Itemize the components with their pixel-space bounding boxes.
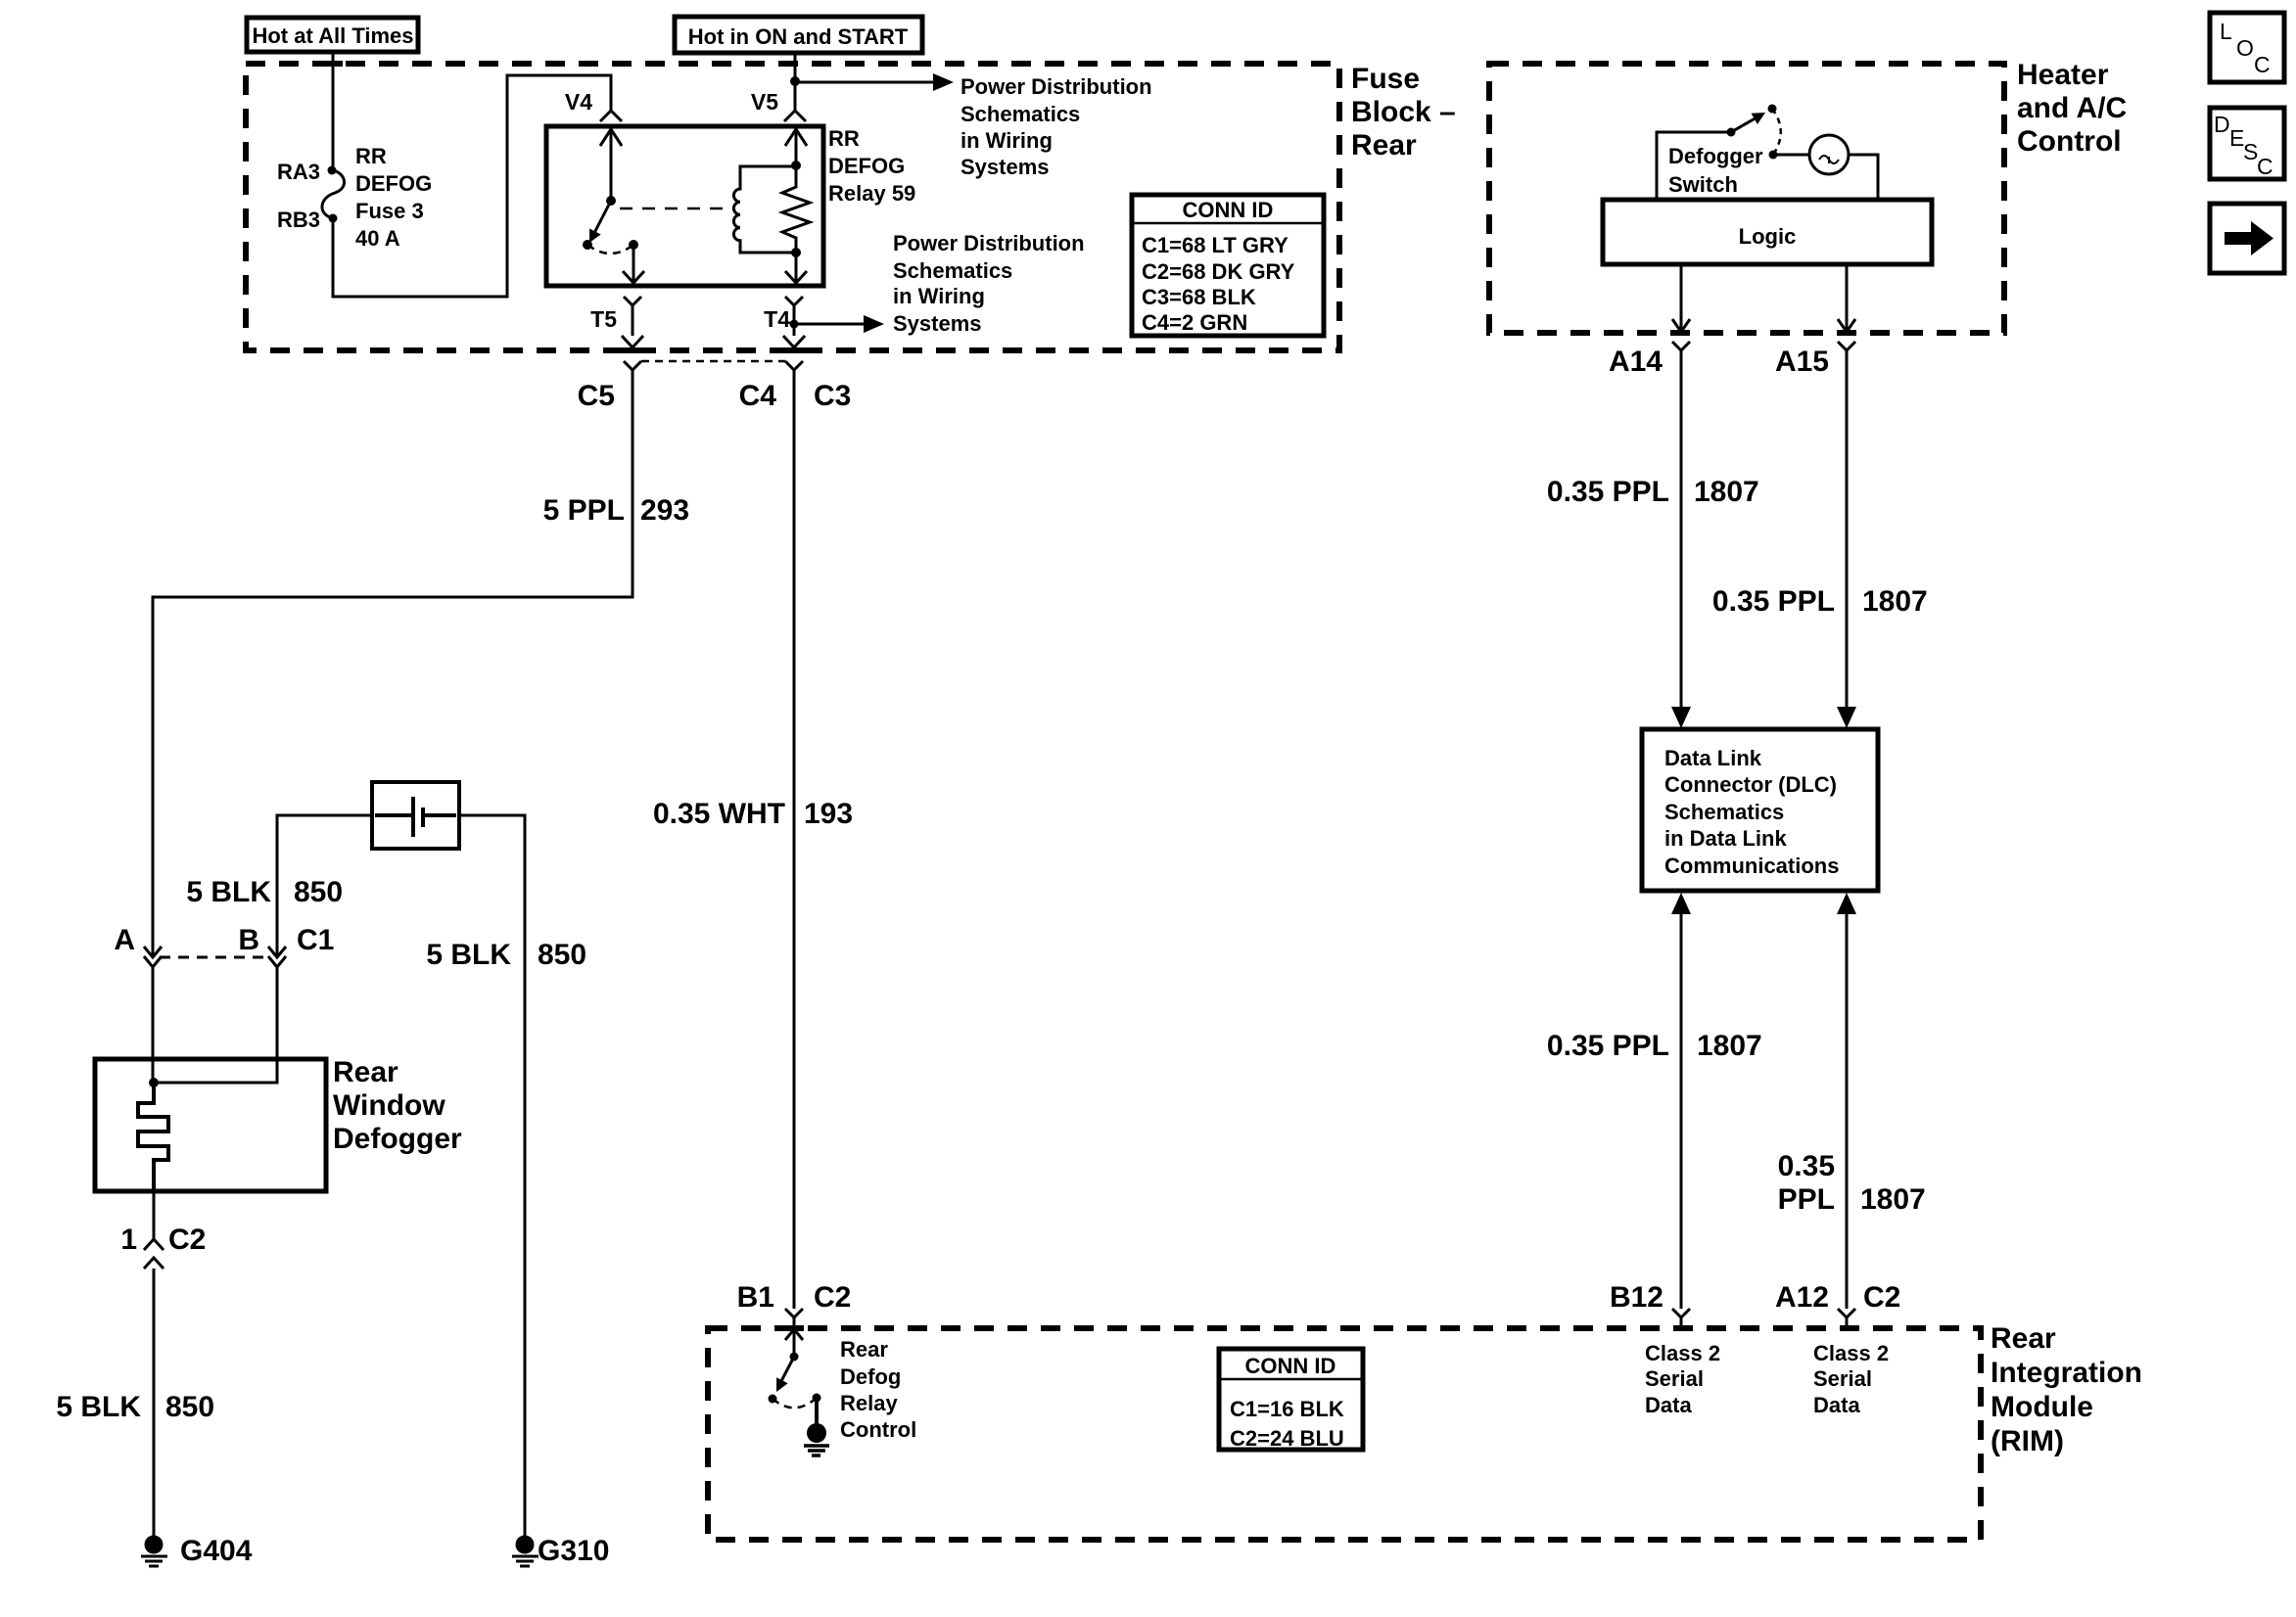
wire A into defogger: [152, 967, 155, 1083]
DESC reference box: [2210, 108, 2284, 179]
label Fuse Block - Rear: [1351, 63, 1456, 162]
svg-text:C5: C5: [578, 380, 615, 412]
svg-text:Defog: Defog: [840, 1364, 901, 1389]
svg-text:0.35 PPL: 0.35 PPL: [1712, 585, 1835, 618]
svg-text:C4=2 GRN: C4=2 GRN: [1142, 310, 1247, 335]
svg-text:Defogger: Defogger: [1668, 144, 1763, 168]
svg-text:5 BLK: 5 BLK: [186, 876, 271, 908]
svg-text:850: 850: [538, 939, 586, 971]
svg-text:Block –: Block –: [1351, 96, 1456, 128]
Rear Integration Module dashed box: [708, 1328, 1981, 1540]
svg-text:in Data Link: in Data Link: [1664, 826, 1787, 851]
defogger switch arm: [1731, 113, 1765, 132]
defogger switch feed wire: [1657, 132, 1731, 200]
svg-text:Hot in ON and START: Hot in ON and START: [688, 24, 909, 49]
svg-text:DEFOG: DEFOG: [828, 154, 905, 178]
label box "Hot in ON and START": [675, 17, 922, 53]
node T4 junction: [790, 320, 799, 329]
svg-text:C2: C2: [1863, 1281, 1900, 1314]
wire label 5 BLK 850 (left): [186, 876, 343, 908]
svg-text:Rear: Rear: [1991, 1322, 2056, 1355]
svg-text:L: L: [2220, 19, 2232, 44]
node V5 junction: [790, 76, 800, 86]
svg-text:C2: C2: [168, 1224, 206, 1256]
defogger switch dashed arc: [1772, 109, 1781, 155]
relay coil feed wire with up arrow: [785, 128, 807, 165]
svg-text:in Wiring: in Wiring: [893, 284, 985, 308]
svg-text:Schematics: Schematics: [1664, 800, 1784, 824]
svg-text:C2: C2: [814, 1281, 851, 1314]
Heater and A/C Control dashed box: [1489, 64, 2004, 333]
rim internal ground: [804, 1398, 829, 1455]
wire label 5 PPL 293: [543, 494, 689, 527]
svg-text:0.35 PPL: 0.35 PPL: [1547, 476, 1669, 508]
svg-text:Fuse 3: Fuse 3: [355, 199, 424, 223]
svg-text:Rear: Rear: [1351, 129, 1417, 162]
svg-text:Heater: Heater: [2017, 59, 2109, 91]
wire C5 to connector A: [153, 370, 633, 956]
svg-text:RB3: RB3: [277, 208, 320, 232]
dash patch at fuse border wire crossings: [323, 61, 804, 1331]
svg-text:40 A: 40 A: [355, 226, 400, 251]
rim switch input wire with up arrow: [785, 1329, 803, 1357]
relay 59 box: [546, 126, 823, 286]
connector V5: [751, 89, 806, 121]
svg-text:Data: Data: [1813, 1393, 1860, 1417]
defogger switch contact top: [1768, 105, 1777, 114]
svg-text:RR: RR: [355, 144, 387, 168]
svg-text:C1: C1: [297, 924, 334, 956]
svg-text:1807: 1807: [1862, 585, 1928, 618]
svg-text:V5: V5: [751, 89, 778, 115]
relay contact left: [583, 240, 592, 250]
svg-text:C3: C3: [814, 380, 851, 412]
svg-text:Schematics: Schematics: [961, 102, 1080, 126]
label Defogger Switch: [1668, 144, 1763, 197]
svg-text:Class 2: Class 2: [1645, 1341, 1720, 1365]
svg-text:Data: Data: [1645, 1393, 1692, 1417]
svg-text:Power Distribution: Power Distribution: [893, 231, 1085, 255]
connector B1 / C2: [737, 1281, 852, 1326]
svg-text:Serial: Serial: [1813, 1366, 1872, 1391]
label Heater and A/C Control: [2017, 59, 2127, 158]
svg-text:Integration: Integration: [1991, 1357, 2142, 1389]
label Rear Integration Module (RIM): [1991, 1322, 2142, 1457]
ground G404: [141, 1535, 253, 1567]
ground G310: [512, 1535, 609, 1567]
in-line connector 1 / C2: [120, 1224, 206, 1269]
wire label 0.35 WHT 193: [653, 798, 853, 830]
svg-text:Serial: Serial: [1645, 1366, 1704, 1391]
svg-text:1807: 1807: [1694, 476, 1759, 508]
svg-text:0.35: 0.35: [1778, 1150, 1835, 1182]
svg-text:Window: Window: [333, 1089, 445, 1122]
logic box: [1603, 200, 1932, 264]
label Rear Window Defogger: [333, 1056, 462, 1155]
connector A12 / C2: [1775, 1281, 1900, 1328]
LOC reference box: [2210, 13, 2284, 82]
svg-text:B: B: [238, 924, 259, 956]
svg-text:1807: 1807: [1860, 1183, 1926, 1216]
svg-text:CONN ID: CONN ID: [1245, 1354, 1336, 1378]
svg-text:850: 850: [294, 876, 343, 908]
svg-text:1807: 1807: [1697, 1030, 1762, 1062]
in-line connector A: [114, 924, 162, 967]
svg-text:Rear: Rear: [333, 1056, 398, 1088]
svg-text:Data Link: Data Link: [1664, 746, 1762, 770]
svg-text:Fuse: Fuse: [1351, 63, 1420, 95]
svg-text:Power Distribution: Power Distribution: [961, 74, 1152, 99]
svg-text:Systems: Systems: [893, 311, 982, 336]
in-line connector dashed line C5-C4: [641, 360, 785, 363]
wire lamp to logic: [1849, 155, 1878, 200]
rim switch contact dashed arc: [773, 1398, 817, 1408]
svg-text:Control: Control: [2017, 125, 2122, 158]
label Data Link Connector: [1664, 746, 1839, 878]
wire label 0.35 PPL 1807 (B12): [1547, 1030, 1762, 1062]
svg-text:(RIM): (RIM): [1991, 1425, 2064, 1457]
relay coil bottom node: [791, 248, 801, 257]
svg-text:V4: V4: [565, 89, 592, 115]
wire label 0.35 PPL 1807 (A15): [1712, 585, 1928, 618]
relay coil top node: [791, 161, 801, 170]
relay linkage dashed line: [620, 208, 730, 210]
svg-text:and A/C: and A/C: [2017, 92, 2127, 124]
svg-text:Hot at All Times: Hot at All Times: [252, 23, 413, 48]
svg-text:Module: Module: [1991, 1391, 2093, 1423]
text Power Distribution Schematics in Wiring (bottom): [893, 231, 1085, 336]
fuse F3 RR DEFOG 40A: [322, 166, 345, 223]
arrow to Power Distribution (bottom): [794, 315, 884, 333]
connector C5: [578, 361, 641, 412]
wire B up to capacitor: [277, 815, 372, 956]
svg-text:C: C: [2254, 52, 2271, 77]
svg-text:Logic: Logic: [1739, 224, 1797, 249]
CONN ID table (RIM): [1219, 1349, 1363, 1451]
svg-text:T4: T4: [764, 306, 790, 332]
fuse value label RR DEFOG Fuse 3 40 A: [355, 144, 432, 251]
svg-text:C: C: [2257, 154, 2273, 179]
wire A14 to DLC: [1671, 350, 1691, 728]
wire logic to A14: [1672, 264, 1690, 332]
svg-text:G310: G310: [538, 1535, 609, 1567]
wire to indicator lamp: [1773, 154, 1809, 157]
svg-text:CONN ID: CONN ID: [1183, 198, 1274, 222]
svg-text:A12: A12: [1775, 1281, 1829, 1314]
rim switch pivot: [790, 1353, 799, 1362]
relay coil return wire with down arrow: [785, 253, 807, 283]
wire B12 to DLC: [1671, 893, 1691, 1309]
connector T5: [590, 297, 643, 347]
relay output wire with down arrow: [623, 245, 644, 283]
wire C1 into defogger: [154, 967, 277, 1083]
in-line connector dashed line A-B: [160, 956, 270, 959]
svg-text:1: 1: [120, 1224, 137, 1256]
rim switch contact left: [769, 1395, 777, 1404]
rim switch contact right: [813, 1394, 821, 1403]
svg-text:C1=16 BLK: C1=16 BLK: [1230, 1397, 1344, 1421]
svg-text:B12: B12: [1610, 1281, 1663, 1314]
svg-text:A14: A14: [1609, 346, 1663, 378]
relay coil: [733, 166, 796, 253]
svg-text:Relay 59: Relay 59: [828, 181, 915, 206]
svg-text:Communications: Communications: [1664, 854, 1839, 878]
label box "Hot at All Times": [247, 18, 418, 52]
wire capacitor to G310: [459, 815, 525, 1536]
pin label RA3: [277, 160, 320, 184]
svg-text:Class 2: Class 2: [1813, 1341, 1889, 1365]
svg-text:G404: G404: [180, 1535, 253, 1567]
connector V4: [565, 89, 622, 121]
connector T4: [764, 297, 805, 347]
text Power Distribution Schematics in Wiring (top): [961, 74, 1152, 179]
svg-text:5 BLK: 5 BLK: [56, 1391, 141, 1423]
svg-text:D: D: [2214, 112, 2230, 137]
svg-text:PPL: PPL: [1778, 1183, 1835, 1216]
svg-text:in Wiring: in Wiring: [961, 128, 1053, 153]
wire label 0.35 PPL 1807 (A14): [1547, 476, 1759, 508]
svg-text:O: O: [2236, 35, 2254, 61]
wire defogger to connector C2: [153, 1191, 156, 1239]
svg-text:A15: A15: [1775, 346, 1829, 378]
svg-text:Rear: Rear: [840, 1337, 888, 1362]
svg-text:Defogger: Defogger: [333, 1123, 462, 1155]
relay resistor: [782, 165, 810, 253]
defogger switch pivot: [1727, 128, 1736, 137]
svg-text:850: 850: [165, 1391, 214, 1423]
relay switch common wire with up arrow: [600, 128, 622, 201]
CONN ID table (fuse block): [1132, 195, 1324, 336]
connector C4 / C3: [739, 361, 852, 412]
svg-text:B1: B1: [737, 1281, 774, 1314]
svg-text:C3=68 BLK: C3=68 BLK: [1142, 285, 1256, 309]
wire A12 to DLC: [1837, 893, 1856, 1309]
connector B12: [1610, 1281, 1690, 1328]
wire from RB3 to V4: [333, 75, 611, 297]
defogger switch contact bottom: [1769, 151, 1778, 160]
svg-text:Schematics: Schematics: [893, 258, 1012, 283]
label Class 2 Serial Data (B12): [1645, 1341, 1720, 1417]
svg-text:Systems: Systems: [961, 155, 1050, 179]
svg-text:C2=24 BLU: C2=24 BLU: [1230, 1426, 1344, 1451]
label RR DEFOG Relay 59: [828, 126, 915, 206]
label Class 2 Serial Data (A12): [1813, 1341, 1889, 1417]
relay switch arm: [589, 201, 611, 243]
pin label RB3: [277, 208, 320, 232]
svg-text:Relay: Relay: [840, 1391, 898, 1415]
svg-text:RA3: RA3: [277, 160, 320, 184]
svg-text:0.35 WHT: 0.35 WHT: [653, 798, 785, 830]
wire label 5 BLK 850 (middle): [426, 939, 586, 971]
wire C4 to B1: [793, 370, 796, 1309]
svg-text:C1=68 LT GRY: C1=68 LT GRY: [1142, 233, 1289, 257]
rim switch arm: [776, 1357, 794, 1392]
capacitor suppressor box: [372, 782, 459, 849]
svg-text:DEFOG: DEFOG: [355, 171, 432, 196]
rear window defogger box: [95, 1059, 326, 1191]
svg-text:5 PPL: 5 PPL: [543, 494, 625, 527]
arrow reference box: [2210, 204, 2284, 273]
wire logic to A15: [1838, 264, 1855, 332]
connector A14: [1609, 342, 1690, 378]
svg-text:C2=68 DK GRY: C2=68 DK GRY: [1142, 259, 1295, 284]
Fuse Block - Rear dashed box: [246, 64, 1339, 350]
connector A15: [1775, 342, 1855, 378]
arrow to Power Distribution (top): [795, 73, 954, 91]
indicator lamp: [1809, 135, 1849, 174]
svg-text:Control: Control: [840, 1417, 916, 1442]
wire from Hot at All Times to fuse: [332, 52, 335, 168]
defogger grid element: [138, 1083, 168, 1191]
wire C2 to G404: [153, 1269, 156, 1536]
label Rear Defog Relay Control: [840, 1337, 916, 1442]
wire A15 to DLC: [1837, 350, 1856, 728]
svg-text:Connector (DLC): Connector (DLC): [1664, 772, 1837, 797]
defogger junction node: [149, 1078, 159, 1087]
svg-text:T5: T5: [590, 306, 617, 332]
svg-text:293: 293: [640, 494, 689, 527]
svg-text:Switch: Switch: [1668, 172, 1738, 197]
relay contact right: [629, 240, 638, 250]
svg-text:0.35 PPL: 0.35 PPL: [1547, 1030, 1669, 1062]
svg-text:A: A: [114, 924, 135, 956]
wire label 0.35 PPL 1807 (A12): [1778, 1150, 1926, 1216]
in-line connector B / C1: [238, 924, 334, 967]
svg-text:RR: RR: [828, 126, 860, 151]
svg-text:5 BLK: 5 BLK: [426, 939, 511, 971]
DLC box: [1642, 729, 1878, 891]
svg-text:C4: C4: [739, 380, 777, 412]
wire from Hot in ON and START to V5: [794, 53, 797, 110]
svg-text:193: 193: [804, 798, 853, 830]
wire label 5 BLK 850 (bottom): [56, 1391, 214, 1423]
relay switch pivot: [606, 196, 616, 206]
relay contact dashed arc: [587, 245, 633, 254]
